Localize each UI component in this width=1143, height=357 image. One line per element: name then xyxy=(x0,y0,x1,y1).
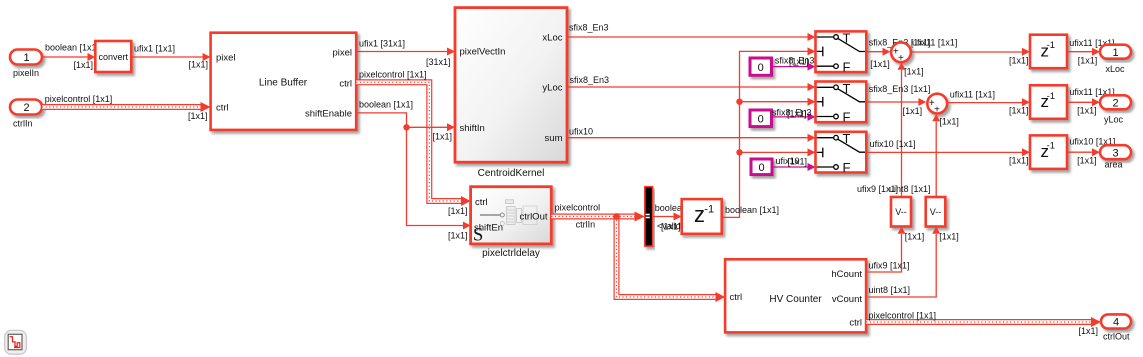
svg-text:xLoc: xLoc xyxy=(1106,64,1126,74)
svg-text:ufix10 [1x1]: ufix10 [1x1] xyxy=(870,139,916,149)
wire V1 up to Sum1 xyxy=(901,70,903,197)
svg-text:+: + xyxy=(898,53,904,64)
svg-text:ctrl: ctrl xyxy=(849,318,862,329)
constant 0 block C3 xyxy=(751,159,772,175)
svg-text:[1x1]: [1x1] xyxy=(448,231,468,241)
svg-text:S: S xyxy=(473,226,483,246)
svg-text:V--: V-- xyxy=(895,207,907,217)
wire Sum1 to Delay1 xyxy=(912,51,1023,53)
V-- block V2 xyxy=(926,197,946,227)
svg-text:sfix8_En3: sfix8_En3 xyxy=(569,23,609,33)
svg-text:[1x1]: [1x1] xyxy=(661,222,681,232)
svg-text:ctrlIn: ctrlIn xyxy=(13,119,33,129)
bus wire HV Counter ctrl to outport ctrlOut xyxy=(866,321,1091,323)
svg-text:-1: -1 xyxy=(1047,141,1055,152)
bus wire ctrlIn to Line Buffer ctrl xyxy=(42,106,201,108)
svg-text:ctrl: ctrl xyxy=(339,79,352,90)
svg-text:[1x1]: [1x1] xyxy=(189,60,209,70)
svg-text:[1x1]: [1x1] xyxy=(870,59,890,69)
svg-text:pixel: pixel xyxy=(332,48,352,59)
svg-text:[1x1]: [1x1] xyxy=(788,157,808,167)
sum block Sum1 xyxy=(891,42,911,62)
Switch3 xyxy=(816,132,867,173)
svg-text:[1x1]: [1x1] xyxy=(904,67,924,77)
svg-text:ufix10: ufix10 xyxy=(569,127,593,137)
svg-text:[1x1]: [1x1] xyxy=(1077,155,1097,165)
svg-text:-1: -1 xyxy=(1047,91,1055,102)
constant 0 block C1 xyxy=(750,58,772,75)
svg-text:[1x1]: [1x1] xyxy=(789,56,809,66)
sample time legend button xyxy=(5,330,27,354)
Switch2 xyxy=(816,82,867,123)
svg-text:[1x1]: [1x1] xyxy=(787,108,807,118)
sum block Sum2 xyxy=(927,94,947,114)
svg-text:pixelcontrol [1x1]: pixelcontrol [1x1] xyxy=(45,94,113,104)
svg-text:1: 1 xyxy=(1112,47,1118,59)
svg-text:Line Buffer: Line Buffer xyxy=(259,78,308,89)
delay block Delay1 xyxy=(1030,35,1067,68)
svg-text:HV Counter: HV Counter xyxy=(769,294,822,305)
wire Line Buffer pixel to CentroidKernel pixelVectIn xyxy=(356,51,447,53)
svg-text:boolean [1x1]: boolean [1x1] xyxy=(359,99,413,109)
wire Bus Selector to Delay Z1 xyxy=(653,216,674,218)
svg-text:[1x1]: [1x1] xyxy=(74,60,94,70)
wire C1 to Switch1 F xyxy=(772,66,809,68)
svg-text:area: area xyxy=(1105,160,1123,170)
svg-text:ufix9 [1x1]: ufix9 [1x1] xyxy=(869,261,910,271)
Line Buffer block xyxy=(211,33,357,130)
branch junction on shiftEnable wire xyxy=(403,124,409,130)
svg-text:T: T xyxy=(843,31,851,46)
svg-text:[1x1]: [1x1] xyxy=(1009,56,1029,66)
svg-text:[1x1]: [1x1] xyxy=(188,111,208,121)
svg-text:F: F xyxy=(843,59,851,74)
wire CentroidKernel sum to Switch3 T xyxy=(567,137,808,139)
svg-text:[31x1]: [31x1] xyxy=(426,57,451,67)
svg-text:V--: V-- xyxy=(930,207,942,217)
wire Line Buffer shiftEnable to CentroidKernel shiftIn and pixelctrldelay shiftEn xyxy=(356,113,463,226)
Switch1 xyxy=(816,31,867,72)
svg-text:pixel: pixel xyxy=(216,53,236,64)
branch junction to Switch3 control xyxy=(736,149,742,155)
svg-text:boolean [1x1]: boolean [1x1] xyxy=(725,205,779,215)
svg-text:ufix11 [1x1]: ufix11 [1x1] xyxy=(912,38,957,48)
svg-text:T: T xyxy=(843,81,851,96)
HV Counter block xyxy=(725,259,866,332)
svg-text:boolean [1x1]: boolean [1x1] xyxy=(45,43,99,53)
constant 0 block C2 xyxy=(750,110,772,127)
svg-text:ufix11 [1x1]: ufix11 [1x1] xyxy=(950,90,995,100)
svg-text:3: 3 xyxy=(1112,147,1118,159)
svg-text:ctrl: ctrl xyxy=(475,197,488,208)
wire convert to Line Buffer pixel xyxy=(131,56,203,58)
outport 2 yLoc xyxy=(1100,95,1131,109)
svg-text:ufix1 [1x1]: ufix1 [1x1] xyxy=(134,44,175,54)
wire HV Counter vCount to V2 xyxy=(866,234,936,297)
svg-text:uint8 [1x1]: uint8 [1x1] xyxy=(889,184,931,194)
wire Switch1 to Sum1 xyxy=(866,51,883,53)
svg-text:4: 4 xyxy=(1113,317,1119,329)
svg-text:yLoc: yLoc xyxy=(1104,115,1124,125)
svg-text:CentroidKernel: CentroidKernel xyxy=(478,168,545,179)
svg-text:+: + xyxy=(934,105,940,116)
svg-text:[1x1]: [1x1] xyxy=(433,132,453,142)
wire Sum2 to Delay2 xyxy=(948,102,1022,104)
wire HV Counter hCount to V1 xyxy=(866,234,901,272)
svg-text:F: F xyxy=(843,110,851,125)
svg-text:ctrl: ctrl xyxy=(216,103,229,114)
bus wire Line Buffer ctrl to pixelctrldelay ctrl xyxy=(356,82,461,201)
svg-text:pixelcontrol [1x1]: pixelcontrol [1x1] xyxy=(869,311,937,321)
svg-text:[1x1]: [1x1] xyxy=(905,232,925,242)
svg-text:[1x1]: [1x1] xyxy=(1009,106,1029,116)
wire C2 to Switch2 F xyxy=(772,116,809,118)
svg-text:pixelctrldelay: pixelctrldelay xyxy=(482,248,540,259)
svg-text:ctrlIn: ctrlIn xyxy=(576,219,596,229)
svg-text:[1x1]: [1x1] xyxy=(1078,326,1098,336)
bus wire branch down to HV Counter ctrl xyxy=(617,217,717,298)
convert block U1 xyxy=(95,41,131,72)
inport 1 pixelIn xyxy=(10,50,42,65)
svg-text:-1: -1 xyxy=(1047,40,1055,51)
CentroidKernel block xyxy=(455,8,567,163)
svg-text:T: T xyxy=(843,131,851,146)
wire Delay2 to outport yLoc xyxy=(1067,101,1093,103)
svg-text:pixelcontrol [1x1]: pixelcontrol [1x1] xyxy=(359,70,427,80)
wire CentroidKernel xLoc to Switch1 T xyxy=(567,36,808,38)
svg-text:[1x1]: [1x1] xyxy=(939,117,959,127)
svg-text:sum: sum xyxy=(545,133,563,144)
pixelctrldelay mask icon xyxy=(480,200,537,226)
svg-text:uint8 [1x1]: uint8 [1x1] xyxy=(869,285,911,295)
svg-text:[1x1]: [1x1] xyxy=(939,232,959,242)
wire Switch3 to Delay3 xyxy=(866,151,1022,153)
svg-text:2: 2 xyxy=(23,102,29,114)
svg-text:[1x1]: [1x1] xyxy=(1009,155,1029,165)
svg-text:yLoc: yLoc xyxy=(542,83,562,94)
wire branch to shiftIn xyxy=(407,126,448,128)
svg-text:[1x1]: [1x1] xyxy=(1078,56,1098,66)
inport 2 ctrlIn xyxy=(10,100,42,115)
wire Delay3 to outport area xyxy=(1067,151,1093,153)
svg-text:pixelcontrol: pixelcontrol xyxy=(555,203,601,213)
svg-text:[1x1]: [1x1] xyxy=(448,206,468,216)
outport 3 area xyxy=(1100,145,1131,159)
outport 4 ctrlOut xyxy=(1101,314,1131,328)
outport 1 xLoc xyxy=(1100,45,1131,59)
wire V2 up to Sum2 xyxy=(935,122,937,198)
wire Switch2 to Sum2 xyxy=(866,101,919,103)
delay block Delay2 xyxy=(1030,85,1067,119)
svg-text:F: F xyxy=(843,160,851,175)
wire Delay1 to outport xLoc xyxy=(1067,51,1093,53)
svg-text:ufix1 [31x1]: ufix1 [31x1] xyxy=(359,39,405,49)
svg-text:hCount: hCount xyxy=(831,269,862,280)
svg-text:pixelVectIn: pixelVectIn xyxy=(460,47,506,58)
svg-text:1: 1 xyxy=(23,52,29,64)
svg-text:ctrlOut: ctrlOut xyxy=(520,212,548,223)
svg-text:shiftIn: shiftIn xyxy=(460,123,485,134)
svg-text:ctrl: ctrl xyxy=(730,292,743,303)
svg-text:sfix8_En3 [1x1]: sfix8_En3 [1x1] xyxy=(869,84,931,94)
bus wire pixelctrldelay ctrlOut to Bus Selector xyxy=(551,216,635,218)
delay block Delay3 xyxy=(1030,135,1067,169)
svg-text:[1x1]: [1x1] xyxy=(903,106,923,116)
svg-text:0: 0 xyxy=(758,113,764,125)
svg-text:0: 0 xyxy=(758,62,764,74)
svg-text:xLoc: xLoc xyxy=(542,33,562,44)
svg-text:[1x1]: [1x1] xyxy=(1077,106,1097,116)
pixelctrldelay block xyxy=(471,187,552,244)
svg-text:pixelIn: pixelIn xyxy=(13,68,39,78)
svg-text:0: 0 xyxy=(758,162,764,174)
wire CentroidKernel yLoc to Switch2 T xyxy=(567,86,808,88)
svg-text:vCount: vCount xyxy=(832,294,862,305)
svg-text:ctrlOut: ctrlOut xyxy=(1103,332,1130,342)
svg-text:sfix8_En3: sfix8_En3 xyxy=(570,75,610,85)
branch junction to Switch2 control xyxy=(736,99,742,105)
wire C3 to Switch3 F xyxy=(772,166,808,168)
svg-text:convert: convert xyxy=(99,52,129,62)
Bus Selector block xyxy=(645,187,653,247)
svg-text:shiftEnable: shiftEnable xyxy=(305,108,352,119)
V-- block V1 xyxy=(891,197,911,227)
delay block Z1 (boolean) xyxy=(682,199,722,234)
svg-text:-1: -1 xyxy=(704,204,714,216)
branch junction on ctrlOut bus xyxy=(613,213,620,220)
wire Z1 to switch controls (vertical trunk) xyxy=(722,51,808,217)
svg-text:2: 2 xyxy=(1112,97,1118,109)
wire pixelIn to convert xyxy=(42,56,88,58)
